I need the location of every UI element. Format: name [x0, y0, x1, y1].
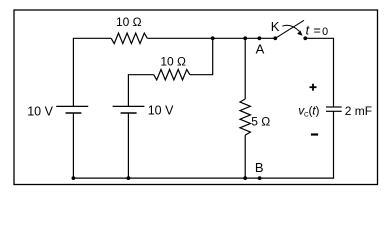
wire: 5 ohm branch top lead — [244, 38, 246, 99]
label A — [256, 41, 265, 56]
svg-text:10 V: 10 V — [148, 104, 174, 118]
frame border — [14, 10, 378, 185]
node dot 5 ohm bottom — [243, 176, 247, 180]
label - (capacitor polarity) — [311, 133, 318, 135]
node dot battery V2 bottom — [126, 176, 130, 180]
wire: battery V1 bottom lead — [72, 113, 74, 178]
wire: bottom wire — [73, 177, 260, 179]
label t = 0 — [306, 24, 329, 38]
node junction dot (top of 5 ohm branch) — [243, 36, 247, 40]
svg-text:t = 0: t = 0 — [306, 24, 329, 38]
wire: capacitor bottom lead — [259, 111, 333, 178]
label B — [255, 160, 264, 175]
node dot bottom-left corner — [72, 176, 76, 180]
svg-text:B: B — [255, 160, 264, 175]
battery V2 (second 10 V source) plates — [113, 106, 145, 113]
resistor R2 10 ohm (middle horizontal) — [154, 70, 190, 80]
svg-text:K: K — [271, 19, 280, 34]
label 10 V (battery V2) — [148, 104, 174, 118]
svg-text:10 Ω: 10 Ω — [116, 15, 142, 29]
wire: battery V2 bottom lead — [127, 113, 129, 178]
switch K pivot dot — [273, 36, 277, 40]
switch K blade — [275, 20, 304, 38]
svg-text:vC(t): vC(t) — [298, 104, 319, 119]
svg-text:5 Ω: 5 Ω — [251, 114, 270, 128]
node B dot — [258, 176, 262, 180]
switch right node dot — [303, 36, 307, 40]
wire: R2 to battery V2 corner — [128, 75, 153, 107]
wire: top wire from R1 to switch pivot — [147, 37, 275, 39]
label 5 ohm (R3) — [251, 114, 270, 128]
wire: 5 ohm branch bottom lead — [244, 135, 246, 178]
label vc(t) — [298, 104, 319, 119]
wire: top wire left section — [73, 38, 111, 106]
label 10 ohm (R1) — [116, 15, 142, 29]
battery V1 (left 10 V source) plates — [56, 106, 88, 113]
resistor R3 5 ohm (vertical) — [240, 99, 250, 135]
svg-text:10 Ω: 10 Ω — [160, 54, 186, 68]
label 10 ohm (R2) — [160, 54, 186, 68]
wire: R2 branch vertical from top junction — [190, 38, 213, 74]
label 2 mF — [345, 104, 372, 118]
switch closing arc arrow — [282, 25, 302, 35]
label + (capacitor polarity) — [310, 84, 317, 91]
capacitor C1 plates — [326, 107, 342, 111]
svg-text:A: A — [256, 41, 265, 56]
node A dot — [258, 36, 262, 40]
svg-text:10 V: 10 V — [27, 105, 53, 119]
svg-text:2 mF: 2 mF — [345, 104, 372, 118]
label K — [271, 19, 280, 34]
label 10 V (battery V1) — [27, 105, 53, 119]
node junction dot (top of R2 branch) — [211, 36, 215, 40]
resistor R1 10 ohm (top horizontal) — [111, 33, 147, 44]
wire: top wire right section to capacitor branch corner — [305, 38, 333, 107]
